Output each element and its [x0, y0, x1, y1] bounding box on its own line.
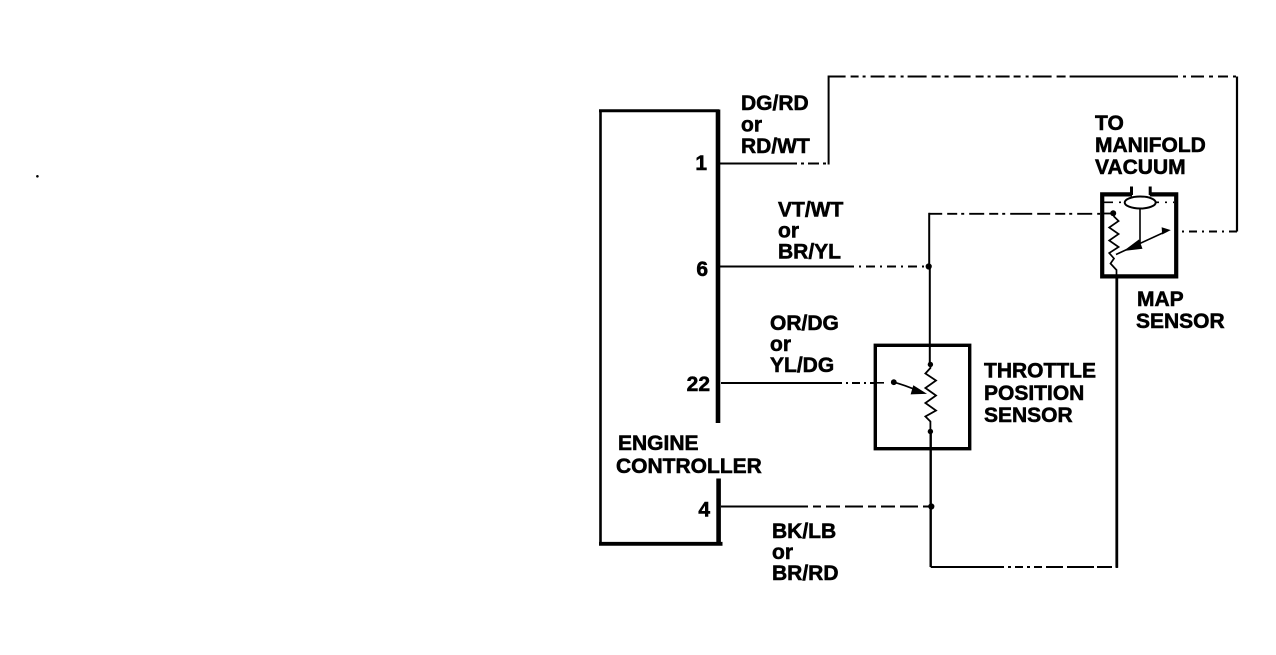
MAP sensor box	[1102, 187, 1176, 277]
wire label VT/WT or BR/YL	[778, 199, 843, 264]
svg-text:or: or	[741, 114, 762, 137]
engine controller box	[599, 110, 723, 546]
svg-text:RD/WT: RD/WT	[741, 135, 810, 158]
svg-text:SENSOR: SENSOR	[984, 404, 1073, 427]
MAP stem	[1139, 208, 1141, 243]
svg-text:SENSOR: SENSOR	[1136, 310, 1225, 333]
label ENGINE CONTROLLER	[616, 432, 762, 478]
svg-text:VACUUM: VACUUM	[1095, 156, 1186, 179]
wire pin 6	[719, 266, 927, 268]
throttle position sensor box	[875, 345, 969, 448]
svg-text:4: 4	[698, 499, 710, 522]
wire MAP right dash-dot	[1179, 231, 1237, 233]
wire MAP bottom riser	[1115, 277, 1118, 568]
label MAP SENSOR	[1136, 288, 1225, 333]
MAP diaphragm dashed line	[1104, 201, 1174, 203]
svg-text:or: or	[770, 333, 791, 356]
label TO MANIFOLD VACUUM	[1095, 112, 1206, 179]
svg-text:TO: TO	[1095, 112, 1124, 135]
MAP diaphragm ellipse	[1125, 197, 1156, 209]
svg-text:ENGINE: ENGINE	[618, 432, 699, 455]
wire label BK/LB or BR/RD	[772, 520, 839, 585]
svg-text:1: 1	[695, 152, 707, 175]
svg-text:or: or	[778, 220, 799, 243]
wire junction up riser	[928, 213, 930, 267]
svg-text:BR/YL: BR/YL	[778, 241, 841, 264]
MAP wiper diagonal	[1116, 231, 1167, 255]
wire label DG/RD or RD/WT	[741, 92, 810, 158]
wire pin 22	[721, 382, 874, 384]
wire TPS bottom drop	[930, 432, 932, 568]
wire to MAP left dash-dot	[929, 213, 1111, 215]
TPS wiper arrow	[877, 379, 925, 393]
svg-text:MAP: MAP	[1137, 288, 1184, 311]
junction pin 6	[926, 263, 932, 269]
wire bottom run	[931, 566, 1118, 568]
wire junction down to TPS	[929, 267, 931, 365]
MAP stem arrowhead	[1125, 240, 1142, 250]
wire pin 1 horizontal	[719, 163, 829, 165]
svg-text:YL/DG: YL/DG	[770, 354, 834, 377]
MAP wiper arrowhead	[1162, 228, 1169, 234]
svg-text:THROTTLE: THROTTLE	[984, 360, 1096, 383]
label THROTTLE POSITION SENSOR	[984, 360, 1096, 428]
svg-text:MANIFOLD: MANIFOLD	[1095, 134, 1206, 157]
svg-text:CONTROLLER: CONTROLLER	[616, 455, 762, 478]
svg-text:BR/RD: BR/RD	[772, 562, 839, 585]
wire pin 1 vertical riser	[828, 76, 830, 165]
junction pin 4	[928, 503, 934, 509]
svg-text:22: 22	[687, 373, 710, 396]
wire pin 4	[721, 506, 930, 508]
MAP resistor R2	[1109, 210, 1118, 277]
TPS resistor R1	[925, 362, 936, 434]
svg-text:BK/LB: BK/LB	[772, 520, 836, 543]
svg-text:OR/DG: OR/DG	[770, 312, 839, 335]
svg-text:DG/RD: DG/RD	[741, 92, 809, 115]
svg-text:POSITION: POSITION	[984, 382, 1084, 405]
stray speck	[36, 175, 39, 178]
svg-text:or: or	[772, 541, 793, 564]
wire label OR/DG or YL/DG	[770, 312, 839, 377]
svg-text:VT/WT: VT/WT	[778, 199, 843, 222]
svg-text:6: 6	[696, 258, 708, 281]
wire top dash-dot run	[829, 76, 1237, 78]
wire right vertical	[1236, 77, 1238, 232]
